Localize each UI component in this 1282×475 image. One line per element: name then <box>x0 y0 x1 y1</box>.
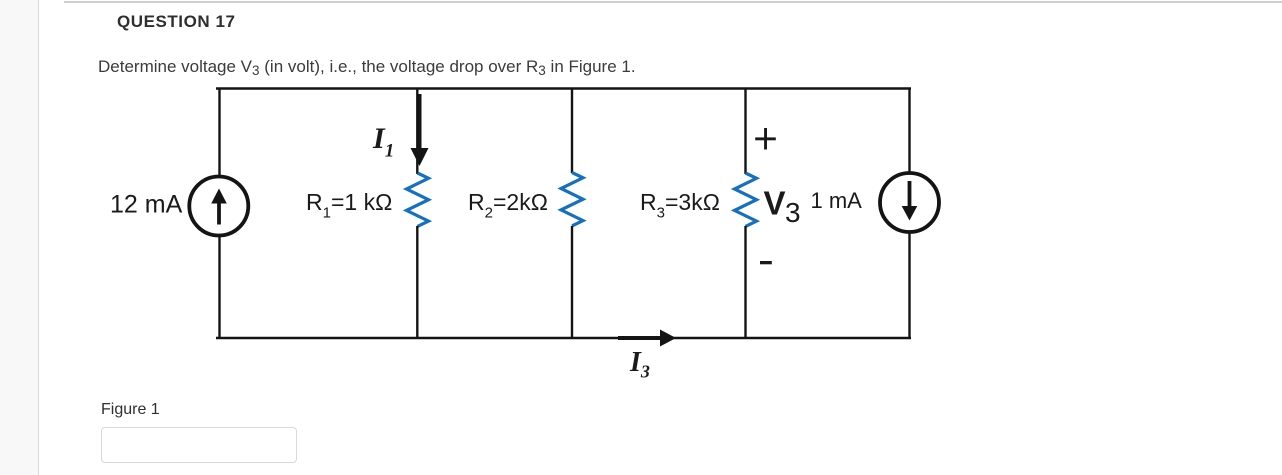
wire: R1 branch lower segment <box>416 226 418 339</box>
polarity plus sign <box>755 128 776 150</box>
wire: top bus <box>216 87 911 89</box>
current arrow I3 (right, on bottom bus) <box>618 330 676 347</box>
svg-text:R2=2kΩ: R2=2kΩ <box>468 189 548 222</box>
svg-text:12 mA: 12 mA <box>110 191 183 219</box>
svg-text:3: 3 <box>785 197 801 228</box>
svg-text:R3=3kΩ: R3=3kΩ <box>640 189 720 222</box>
top divider line <box>64 1 1282 3</box>
question text <box>98 58 636 75</box>
current source IS2 (1 mA, arrow down) <box>880 173 939 232</box>
wire: R3 branch lower segment <box>744 226 746 339</box>
svg-text:R1=1 kΩ: R1=1 kΩ <box>306 189 392 222</box>
wire: right branch upper segment <box>908 88 910 174</box>
resistor R3 <box>735 173 757 226</box>
wire: R2 branch upper segment <box>571 88 573 173</box>
wire: R3 branch upper segment <box>744 88 746 174</box>
current source IS1 (12 mA, arrow up) <box>189 177 248 236</box>
svg-text:1 mA: 1 mA <box>811 188 863 213</box>
current arrow I1 (down, on R1 branch) <box>411 94 429 166</box>
wire: R2 branch lower segment <box>571 226 573 339</box>
question heading <box>117 13 235 30</box>
wire: right branch lower segment <box>908 232 910 340</box>
resistor R1 <box>407 173 429 226</box>
wire: left branch upper segment <box>218 88 220 178</box>
wire: left branch lower segment <box>218 236 220 340</box>
wire: bottom bus <box>216 337 911 339</box>
svg-text:I1: I1 <box>372 122 394 162</box>
svg-text:V: V <box>764 185 786 222</box>
wire: R1 branch upper segment <box>416 88 418 174</box>
polarity minus sign <box>760 261 772 264</box>
svg-text:I3: I3 <box>629 347 650 382</box>
left sidebar panel <box>0 0 39 475</box>
answer input box <box>101 427 297 463</box>
figure caption <box>101 402 160 418</box>
resistor R2 <box>561 173 583 226</box>
